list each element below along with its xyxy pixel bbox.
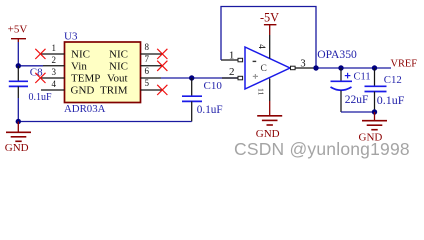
pin 6 stub — [141, 77, 162, 79]
power -5V — [260, 10, 279, 35]
ground right — [359, 112, 388, 144]
svg-text:Vin: Vin — [71, 60, 87, 72]
svg-text:NIC: NIC — [109, 48, 128, 60]
svg-text:0.1uF: 0.1uF — [29, 92, 53, 103]
op-amp pin2 stub — [222, 77, 238, 79]
svg-text:ADR03A: ADR03A — [64, 103, 106, 115]
wire right gnd rail — [341, 111, 375, 113]
pin 3 stub — [41, 77, 65, 79]
op-amp minus sign — [253, 60, 257, 62]
ground op-amp — [256, 101, 282, 140]
pin 1 stub — [41, 53, 65, 55]
svg-text:C12: C12 — [384, 74, 402, 86]
op-amp pin1 stub — [221, 59, 238, 61]
op-amp pin3 stub — [296, 67, 315, 69]
svg-text:+5V: +5V — [8, 24, 28, 36]
svg-text:TRIM: TRIM — [100, 84, 128, 96]
wire gnd rail bottom — [18, 121, 191, 123]
pin 2 stub — [43, 65, 65, 67]
capacitor C12 — [365, 68, 405, 112]
wire feedback loop — [221, 7, 316, 69]
wire output rail — [315, 67, 392, 69]
op-amp U? triangle — [245, 47, 290, 89]
op-amp power pin top (4) — [269, 35, 271, 59]
node right gnd junction — [372, 109, 377, 114]
node C12 junction — [372, 65, 377, 70]
pin 4 stub — [41, 89, 65, 91]
capacitor C11 electrolytic — [331, 68, 371, 112]
svg-text:C: C — [261, 64, 267, 74]
svg-text:C10: C10 — [204, 80, 223, 92]
svg-text:8: 8 — [145, 42, 150, 52]
svg-text:0.1uF: 0.1uF — [377, 93, 405, 107]
svg-text:U3: U3 — [64, 31, 78, 43]
chip U3 pin numbers — [52, 42, 150, 89]
op-amp output square pin3 — [291, 66, 296, 70]
svg-text:Vout: Vout — [107, 72, 128, 84]
op-amp power pin bottom (11) — [269, 79, 271, 102]
svg-text:GND: GND — [5, 142, 29, 154]
no-ERC X pin1 — [35, 49, 45, 59]
svg-text:C11: C11 — [354, 72, 371, 83]
node +5V junction — [16, 63, 21, 68]
svg-text:22uF: 22uF — [345, 94, 369, 106]
svg-text:5: 5 — [145, 78, 150, 88]
pin 7 stub — [141, 65, 163, 67]
power +5V — [8, 24, 28, 43]
svg-text:CSDN @yunlong1998: CSDN @yunlong1998 — [234, 139, 410, 159]
svg-text:4: 4 — [52, 79, 57, 89]
node pin6/C10 junction — [189, 75, 194, 80]
pin 5 stub — [141, 89, 163, 91]
svg-text:1: 1 — [229, 50, 235, 62]
wire C8 to gnd rail — [17, 98, 19, 122]
wire junction to pin2 — [18, 65, 43, 67]
no-ERC X pin8 — [157, 49, 167, 59]
svg-text:7: 7 — [145, 54, 150, 64]
svg-text:6: 6 — [145, 66, 150, 76]
capacitor C10 — [182, 78, 223, 122]
svg-text:3: 3 — [300, 58, 305, 69]
svg-text:TEMP: TEMP — [71, 72, 100, 84]
wire +5V down to junction — [17, 42, 19, 66]
pin 8 stub — [141, 53, 163, 55]
svg-text:1: 1 — [52, 43, 57, 53]
svg-text:OPA350: OPA350 — [317, 48, 357, 61]
svg-text:GND: GND — [71, 84, 95, 96]
no-ERC X pin7 — [157, 61, 167, 71]
wire pin6 to op-amp — [161, 77, 238, 79]
svg-text:-5V: -5V — [260, 10, 279, 24]
op-amp input square pin1 — [238, 58, 243, 62]
op-amp plus sign — [253, 74, 258, 79]
svg-text:NIC: NIC — [109, 60, 128, 72]
svg-text:11: 11 — [257, 88, 266, 95]
chip U3 body — [65, 42, 141, 103]
node output junction — [313, 65, 318, 70]
node gnd rail junction — [16, 119, 21, 124]
no-ERC X pin3 — [35, 73, 45, 83]
no-ERC X pin5 — [157, 85, 167, 95]
svg-text:4: 4 — [257, 44, 267, 49]
ground left — [5, 122, 31, 155]
node C11 junction — [338, 65, 343, 70]
svg-text:NIC: NIC — [71, 48, 90, 60]
capacitor C8 — [9, 66, 52, 103]
chip U3 pin names — [71, 48, 128, 96]
svg-text:3: 3 — [52, 67, 57, 77]
op-amp input square pin2 — [238, 76, 243, 80]
svg-text:2: 2 — [229, 66, 235, 78]
svg-text:2: 2 — [52, 55, 57, 65]
svg-text:0.1uF: 0.1uF — [197, 104, 223, 116]
svg-text:VREF: VREF — [391, 58, 418, 69]
